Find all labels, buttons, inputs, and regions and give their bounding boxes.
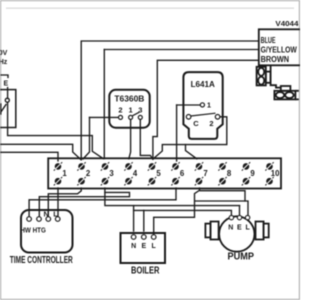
svg-text:BOILER: BOILER <box>131 266 160 277</box>
svg-text:E: E <box>237 225 242 232</box>
svg-text:1: 1 <box>129 106 133 115</box>
svg-text:4: 4 <box>133 169 138 178</box>
svg-text:V4044: V4044 <box>275 19 299 28</box>
svg-text:L: L <box>152 243 157 250</box>
svg-text:2: 2 <box>86 169 91 178</box>
svg-text:50Hz: 50Hz <box>0 59 8 66</box>
svg-text:1: 1 <box>207 101 211 110</box>
svg-text:5: 5 <box>156 169 161 178</box>
svg-text:2: 2 <box>209 119 213 128</box>
svg-text:9: 9 <box>250 169 255 178</box>
svg-text:TIME CONTROLLER: TIME CONTROLLER <box>10 255 73 266</box>
svg-text:C: C <box>193 119 199 128</box>
svg-text:N: N <box>228 225 233 232</box>
svg-text:L: L <box>53 209 58 218</box>
svg-text:E: E <box>141 243 146 250</box>
svg-text:6: 6 <box>180 169 185 178</box>
svg-text:BLUE: BLUE <box>261 36 276 45</box>
svg-text:HW HTG: HW HTG <box>20 226 46 235</box>
svg-text:10: 10 <box>271 169 280 178</box>
svg-text:7: 7 <box>203 169 207 178</box>
svg-text:PUMP: PUMP <box>228 251 255 262</box>
svg-text:8: 8 <box>227 169 232 178</box>
svg-text:G/YELLOW: G/YELLOW <box>261 45 298 54</box>
svg-text:E: E <box>3 80 8 87</box>
svg-text:L641A: L641A <box>191 80 215 89</box>
svg-text:3: 3 <box>138 106 142 115</box>
svg-text:2: 2 <box>118 106 122 115</box>
svg-text:N: N <box>43 209 48 218</box>
svg-text:T6360B: T6360B <box>114 93 144 103</box>
svg-text:N: N <box>131 243 136 250</box>
svg-text:3: 3 <box>109 169 114 178</box>
svg-text:1: 1 <box>62 169 67 178</box>
svg-text:L: L <box>245 225 250 232</box>
svg-text:BROWN: BROWN <box>261 55 290 64</box>
svg-text:230V: 230V <box>0 50 8 57</box>
